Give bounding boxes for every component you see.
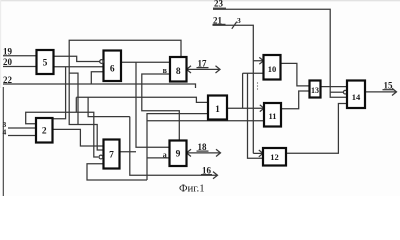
wire block2 out to block7 in1 <box>53 129 104 146</box>
svg-text:5: 5 <box>43 59 48 69</box>
block 6 <box>104 51 122 82</box>
block 12 <box>263 148 286 166</box>
node 3 input line <box>3 120 37 129</box>
wire block5 out1 to block6 bubble <box>54 56 100 61</box>
node 4 input line <box>3 128 37 137</box>
svg-text:10: 10 <box>268 64 277 74</box>
block 1 <box>208 96 227 120</box>
wire block6 out to block8 in1 <box>121 61 170 63</box>
node 21 line with bus slash <box>213 16 254 154</box>
block 13 <box>310 81 321 98</box>
block 2 <box>36 118 53 143</box>
junction artifact dots <box>257 82 258 89</box>
wire block12 out to block14 in4 <box>286 104 347 154</box>
wire block10 out to block13 in1 <box>281 63 310 86</box>
svg-text:Фиг.1: Фиг.1 <box>179 183 205 195</box>
wire block1 out arrow into block11 clk <box>227 105 264 112</box>
wire vertical x76 <box>75 97 77 112</box>
node 16 label <box>201 166 212 176</box>
svg-text:20: 20 <box>3 57 13 67</box>
wire block5 out2 to block6 in2 <box>54 66 104 68</box>
inverter bubble block6 <box>100 60 104 64</box>
svg-text:11: 11 <box>268 111 276 121</box>
svg-text:а: а <box>163 150 167 159</box>
wire block10 in2 horizontal <box>243 72 264 74</box>
svg-text:в: в <box>163 66 168 75</box>
svg-text:3: 3 <box>237 16 241 25</box>
node 20 input line <box>3 57 37 67</box>
wire 21 arrow into block10 clk <box>253 57 263 64</box>
wire block7 out <box>120 151 137 153</box>
wire 22 junction to block6 in3 <box>91 72 103 84</box>
wire feedback block8 top to left vertical <box>69 40 181 150</box>
wire vertical x242 <box>242 73 244 108</box>
block 9 <box>170 141 187 167</box>
node 23 line to block14 <box>213 0 347 97</box>
node 17 bidirectional arrow <box>187 59 221 74</box>
svg-text:12: 12 <box>270 152 279 162</box>
wire line16 down from block7 out <box>130 117 212 176</box>
svg-text:6: 6 <box>110 64 115 74</box>
wire branch down to block9 in1 <box>136 62 170 147</box>
wire vertical x88 and stub y116.6 <box>88 97 130 116</box>
arrow head 16 <box>212 172 218 179</box>
svg-text:19: 19 <box>3 47 13 57</box>
wire vertical x147 to block9 in2, block11 in2, block1 in2 <box>147 114 208 180</box>
inverter bubble block7 <box>99 155 103 159</box>
node 19 input line <box>3 47 37 57</box>
wire block7 in4 bottom loop <box>87 164 147 180</box>
node 18 bidirectional arrow <box>187 142 221 157</box>
inverter bubble block14 <box>343 90 347 94</box>
wire horizontal y112 to block2 and block7 bubble <box>26 112 99 157</box>
node 15 output arrow <box>365 81 397 96</box>
block 11 <box>264 103 281 127</box>
svg-text:7: 7 <box>109 151 114 161</box>
wire block13 out to block14 in1 <box>321 86 348 88</box>
svg-text:23: 23 <box>214 0 224 9</box>
svg-text:8: 8 <box>176 67 181 77</box>
wire block11 out to block13 in2 <box>281 91 310 109</box>
svg-text:9: 9 <box>176 150 181 160</box>
svg-text:15: 15 <box>384 81 394 91</box>
wire branch stub and vertical x78 <box>69 73 78 124</box>
svg-text:14: 14 <box>352 92 361 102</box>
svg-text:4: 4 <box>3 128 7 137</box>
svg-text:1: 1 <box>215 105 220 115</box>
svg-text:13: 13 <box>311 86 319 95</box>
wire branch down from block5 out2 to block2 right <box>53 67 66 119</box>
scan edge artifact left <box>2 87 4 196</box>
block 5 <box>37 50 54 74</box>
wire vertical x247 to block12 in2 <box>248 73 264 158</box>
block 14 <box>347 81 365 109</box>
wire block14 bubble input <box>330 91 343 93</box>
wire into block1 in1 with jog <box>76 97 208 102</box>
block 8 <box>170 57 187 82</box>
block 10 <box>264 55 281 80</box>
svg-text:2: 2 <box>42 127 47 137</box>
wire 21 arrow into block12 clk <box>253 150 263 157</box>
node 22 input line <box>3 75 196 88</box>
wire block8 in2 from below, to block9 top <box>142 74 180 141</box>
block 7 <box>104 140 120 169</box>
